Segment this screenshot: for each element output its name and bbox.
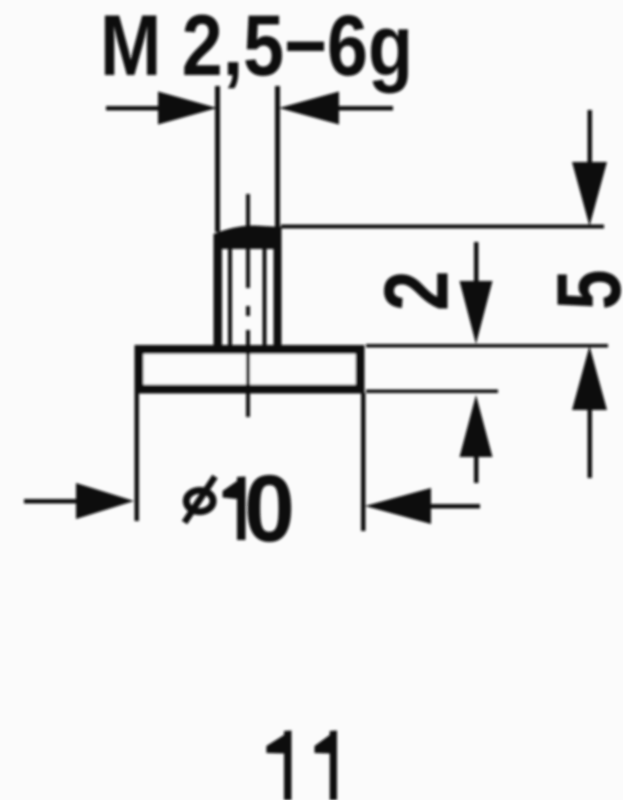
type number 11 : second digit 1: [315, 731, 338, 800]
stud chamfered top cap: [214, 225, 282, 249]
extension line disc left below: [135, 393, 140, 521]
dimension arrow diameter left (points right): [24, 499, 76, 504]
dimension arrow M2,5 left (points right): [106, 106, 159, 111]
centerline middle dash: [246, 306, 250, 316]
extension line disc top right: [366, 344, 608, 348]
centerline upper segment: [246, 194, 250, 288]
svg-text:5: 5: [538, 270, 623, 310]
stud right outline: [274, 240, 282, 345]
dimension arrow 2 top (points down): [474, 242, 479, 281]
thread root line right: [263, 249, 267, 345]
centerline lower segment: [246, 330, 250, 417]
dimension arrow 2 bottom (points up): [460, 395, 493, 457]
extension line for 5 dim at stud top: [281, 225, 604, 229]
extension line disc bottom right: [366, 390, 498, 394]
dimension arrow 5 top (points down): [588, 110, 593, 162]
disc body: [139, 350, 360, 390]
type number 11 : first digit 1: [266, 731, 291, 800]
svg-text:M 2,5−6g: M 2,5−6g: [100, 0, 413, 93]
extension line disc right below: [361, 393, 366, 531]
svg-text:2: 2: [366, 271, 468, 311]
diameter symbol: [185, 477, 216, 523]
svg-text:0: 0: [244, 455, 295, 561]
dimension arrow diameter right (points left): [365, 488, 431, 524]
thread root line left: [228, 249, 232, 345]
extension line stud left edge: [215, 86, 220, 232]
stud left outline: [214, 240, 223, 345]
dimension arrow M2,5 right (points left): [279, 92, 339, 125]
extension line stud right edge: [275, 86, 280, 232]
dimension arrow 5 bottom (points up): [572, 346, 607, 410]
dimension text 10 : digit 1: [223, 477, 246, 541]
